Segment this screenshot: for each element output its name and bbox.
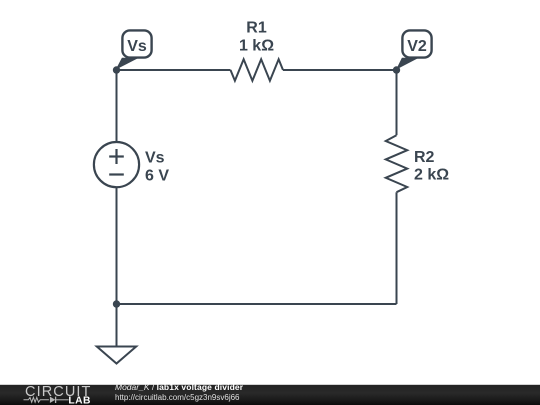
svg-text:R1: R1 <box>246 20 267 37</box>
svg-text:R2: R2 <box>414 149 435 166</box>
svg-text:Vs: Vs <box>145 150 165 167</box>
svg-text:LAB: LAB <box>68 396 91 405</box>
svg-text:Modar_K / lab1x voltage divide: Modar_K / lab1x voltage divider <box>115 382 244 392</box>
svg-text:6 V: 6 V <box>145 168 169 185</box>
svg-text:Vs: Vs <box>127 38 147 55</box>
svg-text:V2: V2 <box>407 38 427 55</box>
svg-text:1 kΩ: 1 kΩ <box>239 38 274 55</box>
svg-text:2 kΩ: 2 kΩ <box>414 167 449 184</box>
svg-text:http://circuitlab.com/c5gz3n9s: http://circuitlab.com/c5gz3n9sv6j66 <box>115 393 240 402</box>
